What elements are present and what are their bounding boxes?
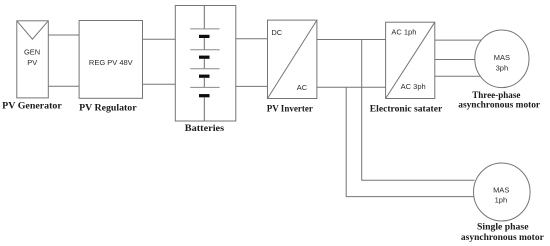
- wire inv-starter top: [317, 39, 386, 41]
- battery cell plates (thin): [190, 29, 219, 88]
- three-phase motor circle: [475, 30, 529, 88]
- battery cell bars (thick): [199, 35, 210, 97]
- label Three-phase asynchronous motor: [458, 91, 540, 111]
- drop wire to 1ph motor (from bottom bus): [346, 87, 474, 196]
- wire reg-batt bottom: [143, 83, 176, 85]
- wire gen-reg top: [48, 34, 79, 36]
- battery internal wire segments: [203, 6, 205, 122]
- svg-text:MAS: MAS: [494, 53, 510, 62]
- svg-text:MAS: MAS: [493, 186, 509, 195]
- svg-text:PV: PV: [27, 58, 37, 67]
- wire batt-inv top: [236, 38, 268, 40]
- svg-text:1ph: 1ph: [495, 195, 508, 204]
- svg-text:asynchronous motor: asynchronous motor: [461, 233, 544, 243]
- motor text MAS 1ph: [493, 186, 509, 205]
- motor text MAS 3ph: [494, 53, 510, 72]
- svg-text:3ph: 3ph: [496, 63, 509, 72]
- electronic starter box: [386, 22, 435, 98]
- svg-text:Electronic satater: Electronic satater: [370, 104, 442, 114]
- wires starter-3ph motor: [435, 40, 482, 76]
- label Single phase asynchronous motor: [461, 223, 544, 243]
- drop wire to 1ph motor (from top bus): [362, 40, 475, 181]
- svg-text:asynchronous motor: asynchronous motor: [458, 101, 540, 111]
- svg-text:Three-phase: Three-phase: [472, 91, 520, 101]
- PV generator text GEN PV: [24, 48, 40, 68]
- svg-text:PV Generator: PV Generator: [2, 101, 62, 111]
- batteries box: [175, 6, 236, 122]
- svg-text:DC: DC: [271, 28, 282, 37]
- wire batt-inv bottom: [236, 85, 268, 87]
- svg-text:AC 1ph: AC 1ph: [391, 27, 416, 36]
- PV regulator box REG PV 48V: [79, 21, 142, 99]
- PV generator box: [17, 21, 49, 98]
- wire gen-reg bottom: [48, 85, 79, 87]
- wire reg-batt top: [143, 38, 176, 40]
- svg-text:AC 3ph: AC 3ph: [401, 82, 426, 91]
- svg-text:PV Regulator: PV Regulator: [79, 104, 137, 114]
- svg-text:AC: AC: [297, 83, 308, 92]
- single-phase motor circle: [474, 163, 531, 221]
- svg-text:REG PV 48V: REG PV 48V: [89, 58, 133, 67]
- svg-text:PV Inverter: PV Inverter: [267, 104, 313, 114]
- svg-text:Batteries: Batteries: [185, 124, 225, 134]
- svg-text:Single phase: Single phase: [477, 223, 529, 233]
- PV inverter box: [268, 20, 317, 98]
- wire inv-starter bottom: [317, 86, 386, 88]
- svg-text:GEN: GEN: [24, 48, 40, 57]
